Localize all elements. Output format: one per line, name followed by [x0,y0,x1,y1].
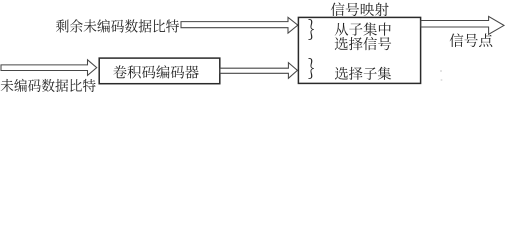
text 选择信号 [335,37,391,50]
arrow uncoded-bits (top input, hollow) [181,17,298,33]
text 剩余未编码数据比特 [56,19,179,32]
text 卷积码编码器 [113,65,198,78]
text 未编码数据比特 [1,79,96,92]
text 从子集中 [335,22,391,35]
arrow encoder-to-mapper (hollow) [220,63,297,79]
box signal mapper [298,17,420,83]
box convolutional encoder 卷积码编码器 [99,58,220,84]
arrow signal-point output (hollow) [421,16,504,34]
arrow coded-input (bottom-left, hollow) [1,60,97,76]
brace lower } [308,58,313,79]
faint scan marks [440,70,442,72]
text 选择子集 [335,67,391,80]
label 信号映射 [331,2,389,16]
brace upper } [308,19,313,40]
text 信号点 [450,33,493,47]
